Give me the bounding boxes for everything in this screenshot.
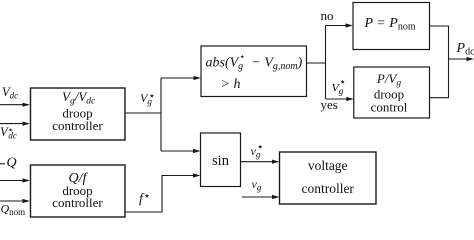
block B7 voltage controller bbox=[280, 152, 377, 204]
block B3 abs comparator bbox=[201, 46, 307, 97]
arrowhead Vdc* input bbox=[23, 122, 31, 126]
svg-text:yes: yes bbox=[321, 97, 338, 112]
star superscript abs block Vg* bbox=[240, 55, 244, 58]
star superscript Vg* (yes branch) bbox=[341, 80, 345, 84]
wire Vdc input bbox=[0, 104, 24, 106]
wire junction vertical yes/no bbox=[325, 26, 327, 100]
wire vg input bbox=[242, 196, 274, 198]
wire abs output to junction bbox=[307, 62, 326, 64]
wire B1 output to junction bbox=[125, 112, 161, 114]
wire P=Pnom output bbox=[430, 26, 449, 98]
arrowhead into P/Vg droop bbox=[346, 97, 354, 101]
block B5 P = Pnom bbox=[353, 3, 430, 50]
wire B2 output bbox=[125, 176, 195, 213]
svg-text:controller: controller bbox=[52, 195, 103, 210]
wire no branch bbox=[326, 25, 348, 27]
arrowhead into sin block bottom bbox=[193, 173, 201, 177]
svg-text:no: no bbox=[321, 8, 334, 23]
arrowhead into voltage controller bottom bbox=[272, 195, 280, 199]
svg-text:sin: sin bbox=[212, 153, 230, 169]
svg-text:control: control bbox=[371, 100, 408, 115]
wire Q input bbox=[0, 180, 24, 182]
wire sin output vg* bbox=[241, 161, 274, 163]
star superscript f* bbox=[145, 194, 149, 198]
block B4 sin bbox=[201, 133, 241, 187]
block B6 P/Vg droop control bbox=[354, 67, 430, 118]
label Q with cropped dash bbox=[0, 163, 5, 165]
arrowhead into P=Pnom bbox=[346, 23, 354, 27]
wire Qnom input bbox=[0, 200, 24, 202]
arrowhead Pdc output bbox=[467, 57, 474, 61]
svg-text:Q: Q bbox=[7, 156, 17, 171]
star superscript Vg* (B1 output) bbox=[150, 94, 154, 98]
wire Vg* to sin block bbox=[161, 150, 195, 152]
arrowhead into voltage controller top bbox=[272, 160, 280, 164]
star superscript Vdc* bbox=[9, 128, 13, 131]
arrowhead Vdc input bbox=[23, 103, 31, 107]
svg-text:controller: controller bbox=[52, 118, 103, 133]
block B1 Vg/Vdc droop controller bbox=[31, 88, 126, 140]
arrowhead Q input bbox=[23, 178, 31, 182]
star superscript vg* bbox=[258, 145, 262, 149]
arrowhead Qnom input bbox=[23, 199, 31, 203]
wire Vdc* input bbox=[0, 123, 24, 125]
arrowhead into sin block top bbox=[193, 149, 201, 153]
svg-text:voltage: voltage bbox=[308, 158, 348, 173]
wire Vg* to abs block bbox=[161, 77, 195, 79]
svg-text:controller: controller bbox=[301, 181, 354, 196]
wire yes branch bbox=[326, 98, 348, 100]
wire junction vertical Vg* bbox=[160, 78, 162, 151]
arrowhead into abs block bbox=[194, 76, 202, 80]
wire Pdc output arrow bbox=[449, 58, 469, 60]
svg-text:> h: > h bbox=[221, 77, 241, 92]
block B2 Q/f droop controller bbox=[31, 165, 126, 217]
